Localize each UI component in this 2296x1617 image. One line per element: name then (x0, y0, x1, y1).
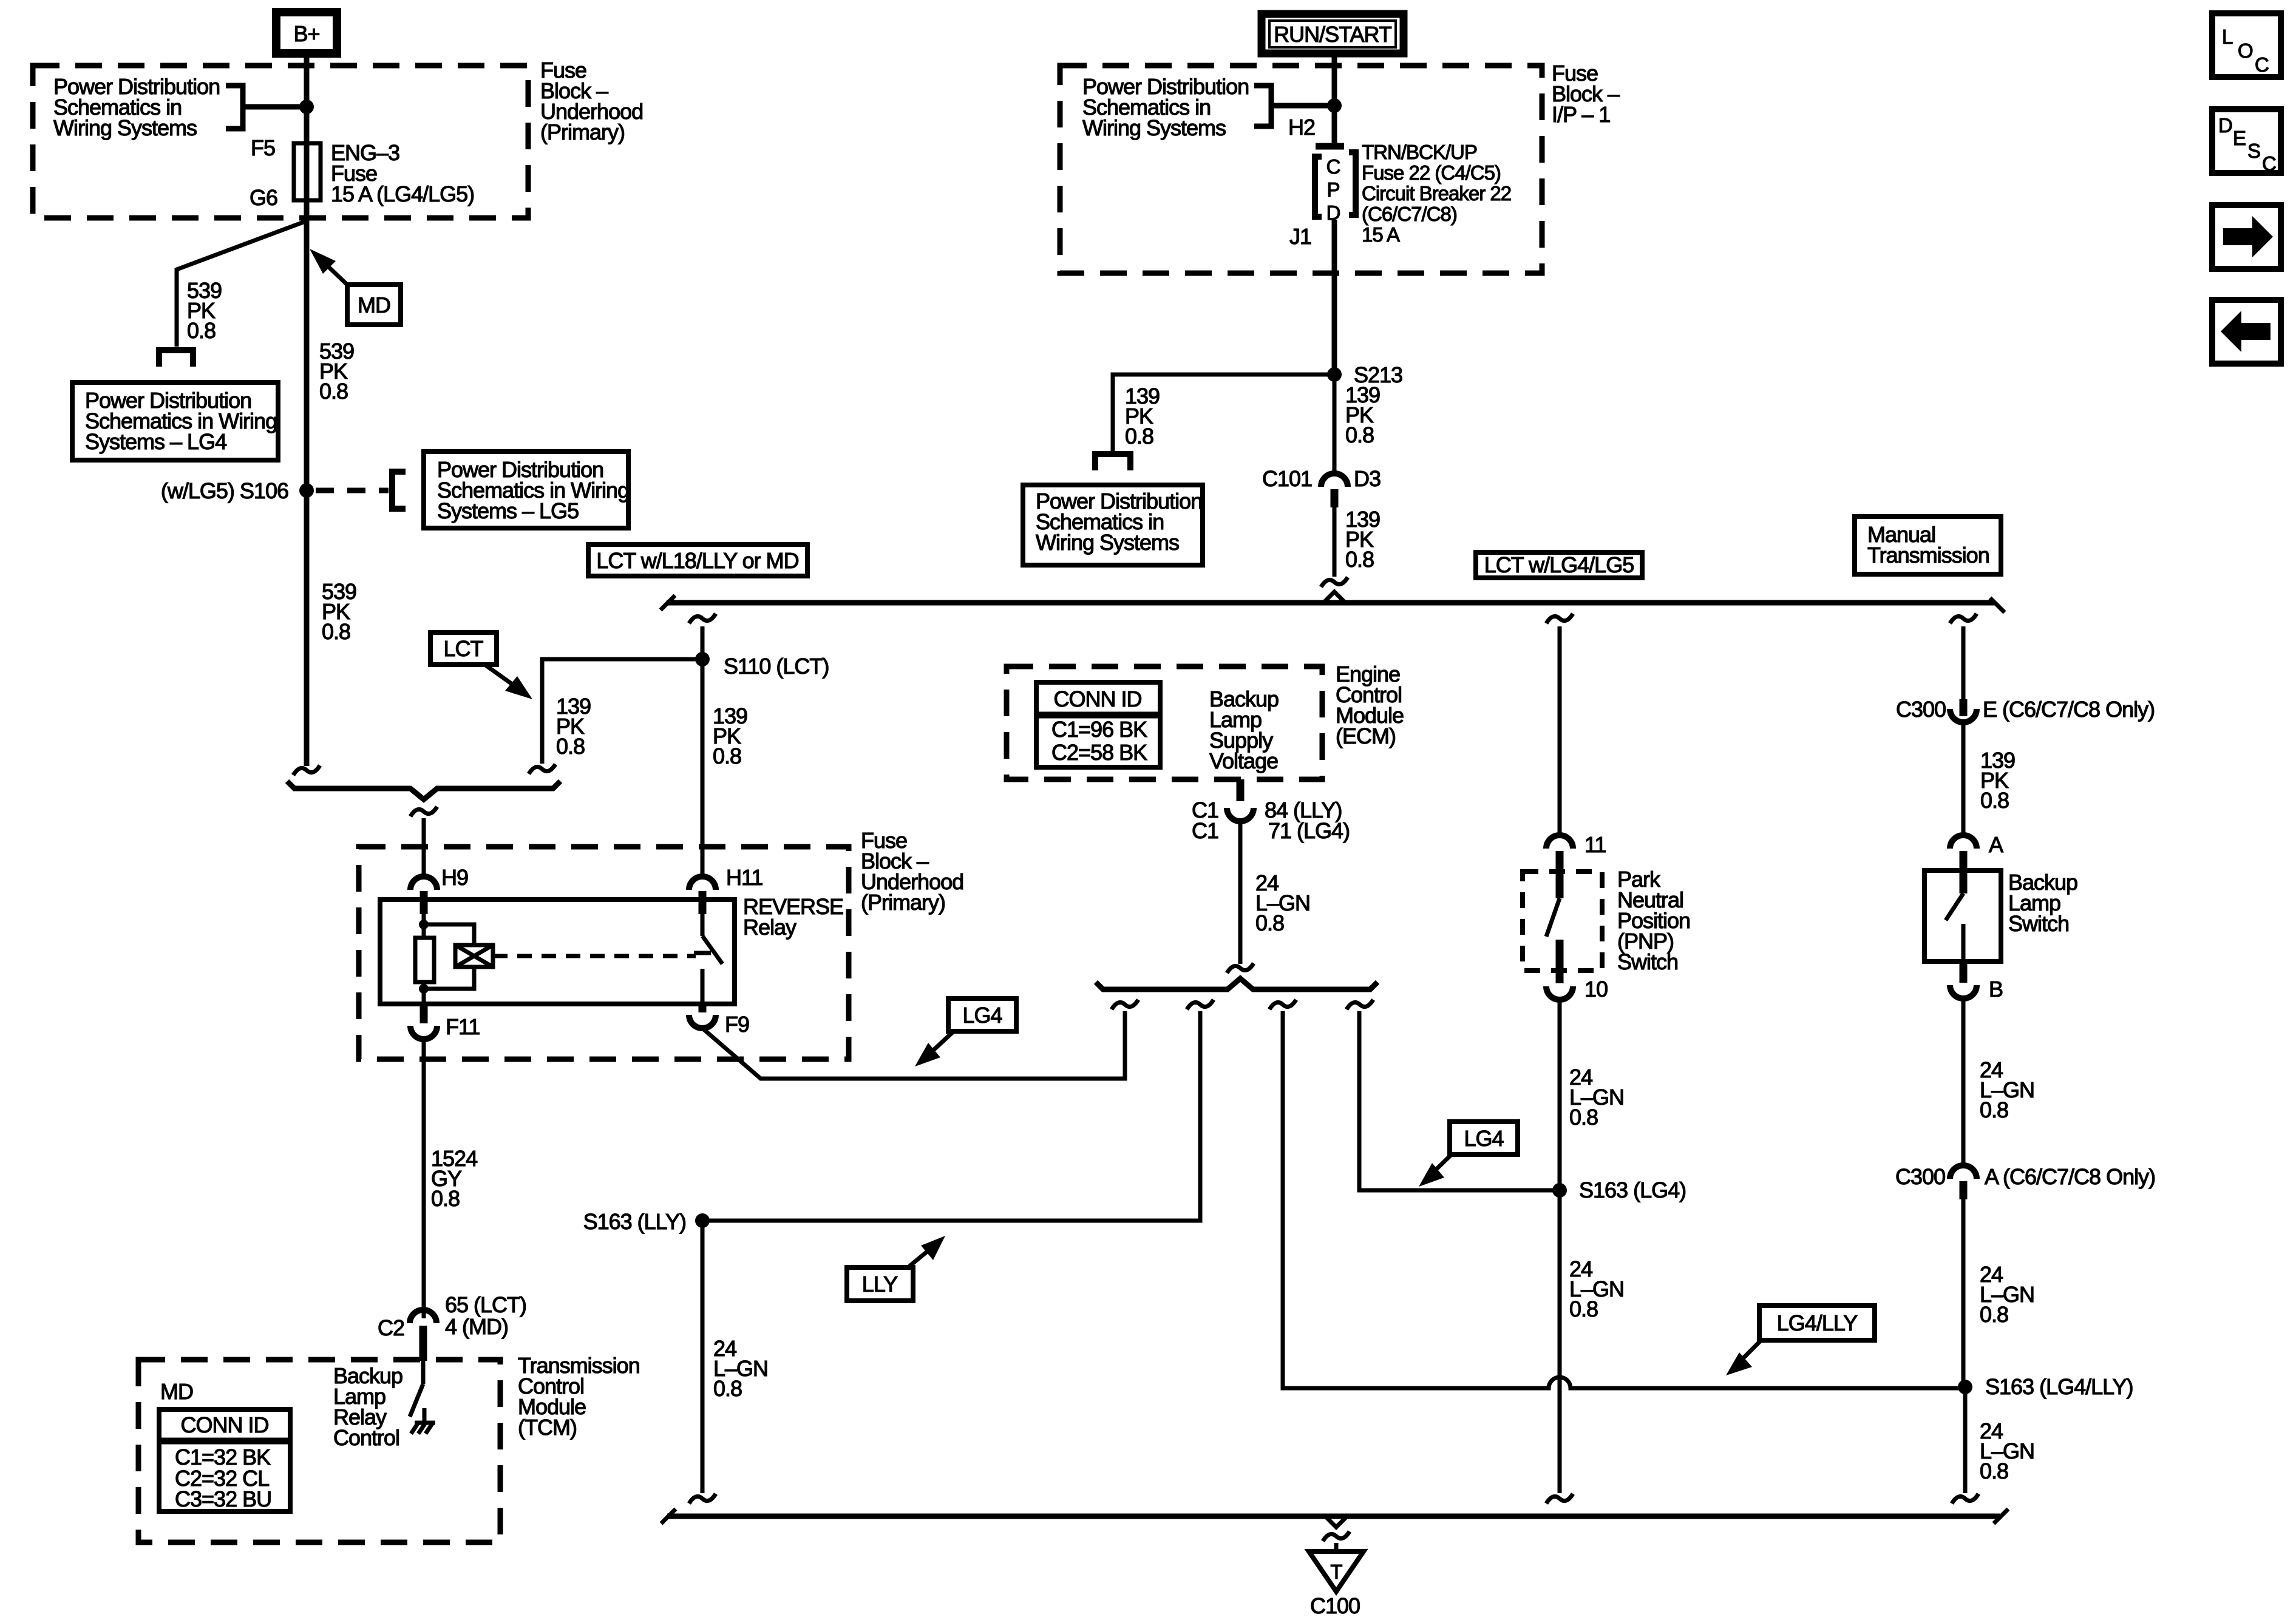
svg-text:0.8: 0.8 (1980, 788, 2009, 813)
header LCT w/LG4/LG5 (1476, 552, 1642, 578)
wire brace to LG4/LLY interconnect (hops PNP wire) (1283, 1011, 1965, 1388)
svg-text:I/P – 1: I/P – 1 (1552, 102, 1610, 127)
svg-text:0.8: 0.8 (1255, 910, 1284, 935)
svg-text:A (C6/C7/C8 Only): A (C6/C7/C8 Only) (1985, 1164, 2155, 1189)
svg-text:B+: B+ (293, 21, 319, 46)
nav box next arrow (2212, 205, 2281, 269)
wire bus to PNP switch (1558, 626, 1562, 836)
svg-text:CONN ID: CONN ID (181, 1412, 269, 1437)
connector C300 A (1950, 1165, 1977, 1179)
svg-text:Wiring Systems: Wiring Systems (1036, 530, 1179, 555)
svg-text:Systems – LG4: Systems – LG4 (85, 429, 226, 454)
splice S163 (LG4) (1552, 1183, 1567, 1198)
CONN ID table (ECM) (1036, 682, 1160, 767)
svg-text:LCT w/L18/LLY or MD: LCT w/L18/LLY or MD (596, 548, 798, 573)
svg-text:C300: C300 (1895, 1164, 1945, 1189)
svg-text:MD: MD (160, 1379, 193, 1404)
svg-text:F9: F9 (725, 1012, 749, 1037)
svg-text:Control: Control (333, 1425, 399, 1450)
svg-text:0.8: 0.8 (1125, 424, 1153, 449)
wire 539 PK main down (304, 222, 310, 490)
dashed stub to LG5 reference (316, 488, 389, 493)
svg-text:0.8: 0.8 (322, 619, 350, 644)
connector F9 (699, 1004, 707, 1012)
wire B+ down to fuse block (304, 58, 310, 222)
backup lamp switch blade (1960, 870, 1968, 893)
wire 539 PK to brace (304, 490, 310, 766)
wire C300 A to S163 LG4/LLY (1961, 1199, 1966, 1387)
nav box DESC (2212, 109, 2281, 173)
svg-text:C1: C1 (1192, 818, 1218, 843)
wire C101 to bus (1333, 507, 1337, 577)
wire S213 to C101 (1333, 375, 1337, 473)
svg-text:H11: H11 (726, 865, 763, 890)
svg-text:C1=96 BK: C1=96 BK (1051, 717, 1147, 742)
svg-text:D: D (2218, 114, 2232, 137)
svg-text:(Primary): (Primary) (861, 890, 945, 915)
wire RUN/START down (1332, 57, 1337, 148)
off-page connector symbol (left branch) (159, 350, 193, 367)
svg-text:11: 11 (1584, 832, 1606, 857)
svg-text:C2=58 BK: C2=58 BK (1051, 740, 1147, 765)
svg-text:MD: MD (358, 293, 390, 317)
svg-text:F11: F11 (446, 1014, 480, 1039)
relay switch (701, 914, 705, 936)
svg-text:G6: G6 (250, 185, 277, 210)
connector 10 (1546, 986, 1573, 1000)
relay coil (422, 914, 426, 938)
splice S110 (695, 652, 710, 666)
svg-text:S163 (LLY): S163 (LLY) (583, 1209, 686, 1234)
svg-text:0.8: 0.8 (1980, 1097, 2008, 1122)
wire 139 PK to backup lamp switch (1961, 722, 1966, 836)
svg-text:0.8: 0.8 (556, 734, 585, 759)
wire from S110 to LCT branch (542, 659, 702, 764)
ground feed chevron (1325, 1516, 1347, 1527)
callout LG4/LLY (1759, 1306, 1875, 1340)
svg-text:B: B (1989, 977, 2003, 1002)
connector F11 (420, 1004, 428, 1023)
svg-text:0.8: 0.8 (713, 744, 741, 768)
fuse block underhood (primary) dashed box (359, 847, 849, 1059)
box power distribution LG5 (424, 452, 628, 528)
bracket to wire (226, 86, 243, 129)
node junction on B+ wire (299, 100, 314, 114)
svg-text:C: C (2262, 152, 2276, 175)
svg-text:S: S (2247, 140, 2260, 162)
svg-text:RUN/START: RUN/START (1274, 22, 1392, 47)
callout MD (347, 285, 401, 325)
svg-text:0.8: 0.8 (431, 1186, 460, 1211)
svg-text:(w/LG5) S106: (w/LG5) S106 (161, 478, 288, 503)
svg-text:Switch: Switch (1617, 949, 1678, 974)
svg-text:C: C (1326, 155, 1340, 178)
svg-text:F5: F5 (251, 135, 275, 160)
svg-text:Wiring Systems: Wiring Systems (53, 115, 197, 140)
wire bus to C300 E (1961, 626, 1966, 699)
nav box back arrow (2212, 300, 2281, 364)
svg-text:C300: C300 (1896, 697, 1946, 722)
connector A (1950, 835, 1977, 849)
svg-text:L: L (2222, 25, 2233, 48)
svg-text:S163 (LG4): S163 (LG4) (1579, 1178, 1686, 1202)
svg-text:65 (LCT): 65 (LCT) (445, 1292, 526, 1317)
connector B (1960, 961, 1968, 983)
svg-text:0.8: 0.8 (319, 379, 348, 404)
callout LLY (847, 1267, 913, 1301)
svg-text:0.8: 0.8 (1345, 547, 1374, 572)
connector H11 (689, 876, 716, 890)
svg-text:H9: H9 (441, 865, 468, 890)
relay suppressor branch (424, 924, 474, 945)
wire 24 L-GN from C1 to splice brace (1238, 821, 1243, 964)
relay actuation dashed line (493, 954, 696, 958)
callout LCT (430, 632, 497, 665)
connector C2 of TCM (410, 1310, 436, 1323)
svg-text:0.8: 0.8 (187, 318, 216, 343)
svg-text:E: E (2233, 127, 2246, 149)
svg-text:Wiring Systems: Wiring Systems (1082, 115, 1226, 140)
svg-text:0.8: 0.8 (1980, 1302, 2008, 1327)
bus feed chevron (1323, 592, 1345, 603)
power feed B+ (276, 12, 337, 53)
wire F9 to LG4 splice collector (702, 1011, 1125, 1079)
svg-text:LCT: LCT (443, 636, 483, 661)
svg-text:0.8: 0.8 (713, 1376, 742, 1401)
svg-text:TRN/BCK/UP: TRN/BCK/UP (1362, 141, 1477, 163)
relay REVERSE box (380, 900, 735, 1004)
wire 24 L-GN to S163 (LG4) (1558, 1000, 1562, 1190)
bracket to wire (1254, 86, 1271, 126)
svg-text:(TCM): (TCM) (518, 1415, 577, 1440)
wire brace to S163 (LLY) (702, 1011, 1200, 1221)
splice S163 (LG4/LLY) (1958, 1380, 1972, 1394)
svg-text:D3: D3 (1354, 466, 1381, 491)
fuse block I/P dashed box (1060, 66, 1542, 273)
svg-text:Circuit Breaker 22: Circuit Breaker 22 (1362, 182, 1511, 205)
svg-text:LLY: LLY (862, 1272, 898, 1297)
svg-text:C: C (2255, 53, 2269, 76)
PNP switch dashed box (1523, 872, 1602, 971)
node junction H2 (1327, 98, 1342, 113)
splice S213 (1327, 367, 1342, 382)
fuse block underhood dashed box (33, 66, 528, 218)
svg-text:LG4: LG4 (1464, 1126, 1503, 1151)
brace collecting 539/139 wires (287, 781, 560, 799)
splice S163 (LLY) (695, 1213, 710, 1228)
svg-text:S213: S213 (1354, 362, 1402, 387)
box power distribution (middle) (1023, 485, 1203, 565)
TCM dashed box (138, 1360, 500, 1542)
svg-text:LG4/LLY: LG4/LLY (1777, 1310, 1858, 1335)
svg-text:4 (MD): 4 (MD) (445, 1314, 508, 1339)
svg-text:S110 (LCT): S110 (LCT) (724, 654, 829, 679)
svg-text:C3=32 BU: C3=32 BU (175, 1486, 271, 1511)
svg-text:0.8: 0.8 (1980, 1459, 2008, 1483)
svg-text:Relay: Relay (743, 915, 796, 940)
wire J1 down to S213 (1332, 220, 1337, 375)
nav box LOC (2212, 13, 2281, 77)
callout LG4 (948, 998, 1016, 1031)
svg-text:(ECM): (ECM) (1336, 724, 1396, 748)
ECM dashed box (1007, 666, 1322, 779)
wire brace to H9 (422, 818, 426, 878)
svg-text:LCT w/LG4/LG5: LCT w/LG4/LG5 (1484, 552, 1634, 577)
connector C101 D3 (1321, 473, 1348, 487)
svg-text:Transmission: Transmission (1867, 543, 1989, 568)
svg-text:A: A (1989, 832, 2003, 857)
box power distribution LG4 (72, 382, 278, 460)
svg-text:Switch: Switch (2008, 911, 2069, 936)
wire S163 LLY down to bus 3 (701, 1221, 705, 1493)
connector 11 (1546, 835, 1573, 849)
wire S163 LG4 down to bottom collector (1558, 1190, 1562, 1493)
svg-text:C2: C2 (378, 1315, 404, 1340)
svg-text:15 A: 15 A (1362, 223, 1400, 246)
splice S106 (299, 483, 314, 498)
connector H9 (410, 876, 437, 890)
ground C100 (T triangle) (1309, 1551, 1364, 1592)
header LCT w/L18/LLY or MD (588, 544, 807, 576)
svg-text:CONN ID: CONN ID (1054, 686, 1142, 711)
header Manual Transmission (1855, 517, 2001, 574)
svg-text:15 A (LG4/LG5): 15 A (LG4/LG5) (331, 181, 474, 206)
svg-text:0.8: 0.8 (1345, 422, 1374, 447)
wire split below fuse block (177, 221, 307, 347)
splice brace distributing to four wires (1096, 978, 1377, 989)
svg-text:Systems – LG5: Systems – LG5 (437, 498, 579, 523)
connector C1 (1227, 808, 1254, 821)
svg-text:0.8: 0.8 (1569, 1297, 1598, 1321)
svg-text:E (C6/C7/C8 Only): E (C6/C7/C8 Only) (1983, 697, 2155, 722)
svg-text:S163 (LG4/LLY): S163 (LG4/LLY) (1985, 1374, 2133, 1399)
svg-text:(Primary): (Primary) (540, 120, 625, 144)
svg-text:P: P (1326, 178, 1339, 201)
svg-text:Voltage: Voltage (1209, 748, 1278, 773)
bus 3 (667, 1514, 2000, 1519)
callout LG4 (S163) (1450, 1122, 1518, 1154)
svg-text:0.8: 0.8 (1569, 1105, 1598, 1130)
wire 24 L-GN to C300 A (1961, 998, 1966, 1165)
branch S213 to power distribution reference (1113, 375, 1334, 452)
CONN ID table (TCM) (159, 1409, 290, 1511)
svg-text:C100: C100 (1310, 1593, 1360, 1617)
svg-text:T: T (1330, 1561, 1342, 1583)
svg-text:H2: H2 (1288, 115, 1315, 140)
svg-text:(C6/C7/C8): (C6/C7/C8) (1362, 203, 1457, 225)
wire S163 LG4/LLY to bus 3 (1963, 1387, 1968, 1493)
svg-text:10: 10 (1584, 977, 1608, 1002)
CPD circuit protection device (1316, 143, 1344, 150)
connector C300 E (1960, 699, 1968, 716)
PNP switch blade (1546, 898, 1560, 937)
off-page connector symbol (1095, 454, 1130, 470)
power feed RUN/START (1262, 14, 1404, 53)
wire 1524 GY F11 to C2 (422, 1039, 426, 1318)
svg-text:O: O (2238, 39, 2253, 62)
svg-text:J1: J1 (1289, 224, 1311, 249)
svg-text:Fuse 22 (C4/C5): Fuse 22 (C4/C5) (1362, 161, 1501, 184)
ground inside TCM (411, 1408, 435, 1434)
backup lamp switch box (1924, 870, 2001, 961)
branch S163 LG4 up to brace wire (1359, 1011, 1560, 1190)
svg-text:71 (LG4): 71 (LG4) (1268, 818, 1350, 843)
wire 139 PK from bus to H11 (689, 614, 716, 623)
svg-text:LG4: LG4 (962, 1003, 1002, 1028)
svg-text:C101: C101 (1262, 466, 1312, 491)
bus 1 (667, 600, 1995, 606)
